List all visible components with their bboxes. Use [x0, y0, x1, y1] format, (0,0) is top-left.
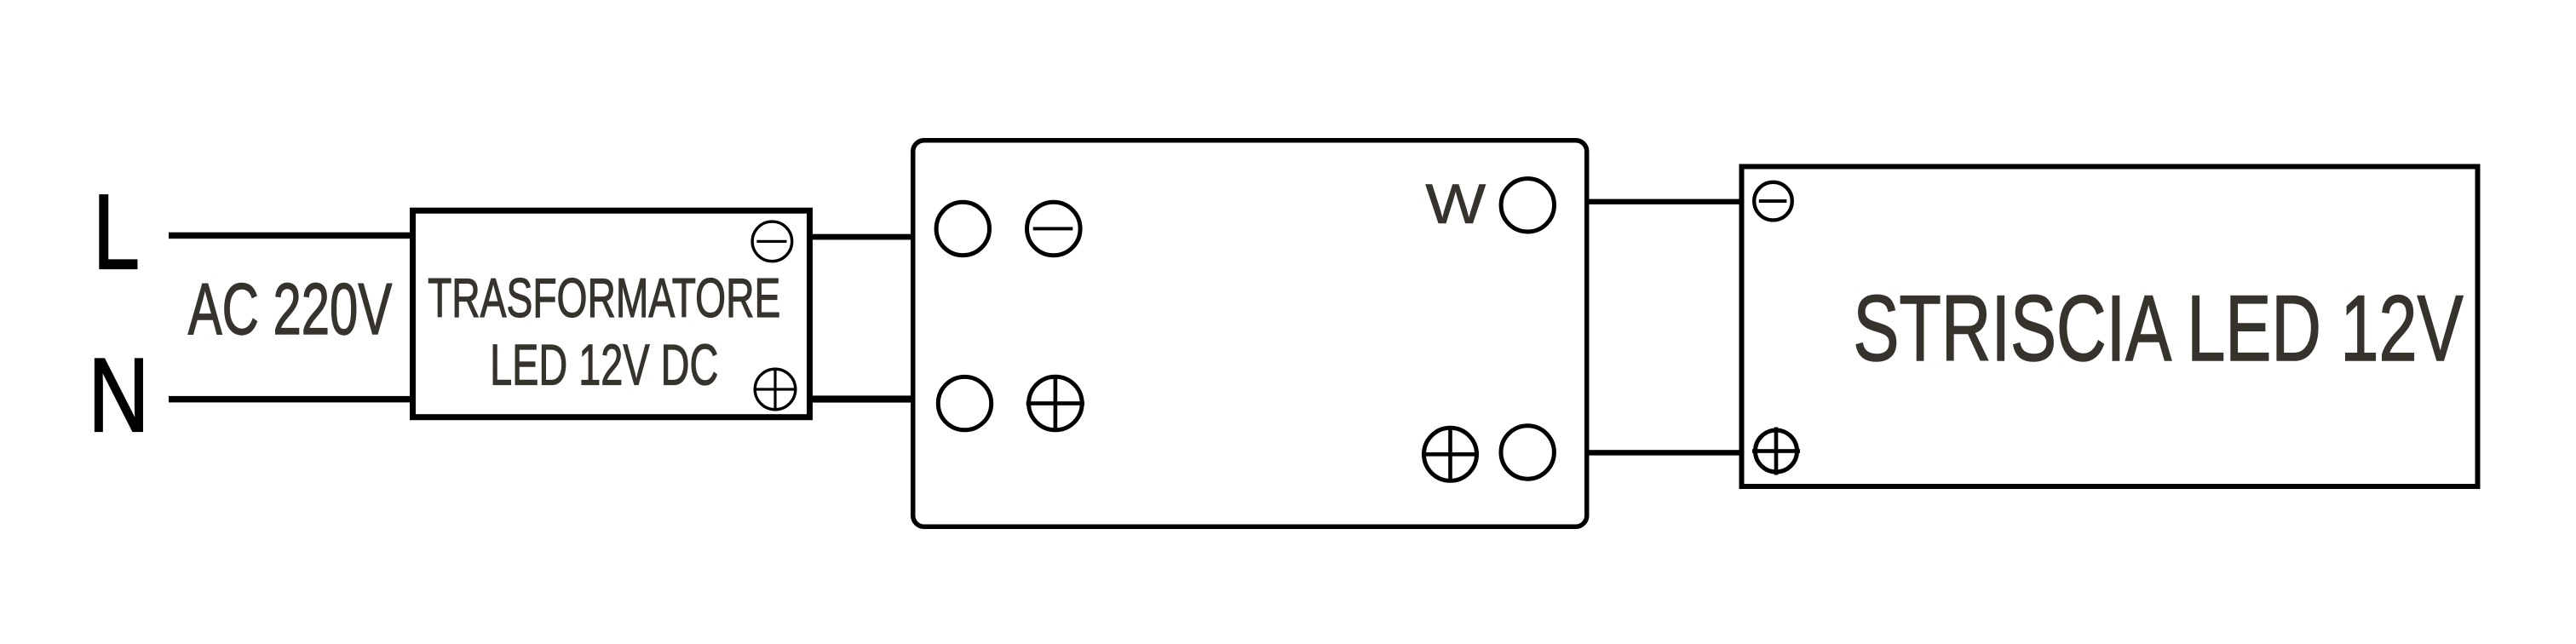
svg-text:W: W: [1425, 172, 1486, 235]
transformer terminal plus: [754, 368, 797, 411]
svg-text:TRASFORMATORE: TRASFORMATORE: [428, 267, 780, 329]
controller output terminal (plain, bottom right): [1501, 426, 1554, 479]
svg-text:LED 12V DC: LED 12V DC: [490, 333, 718, 398]
controller output terminal W: [1501, 179, 1554, 232]
LED strip terminal minus: [1754, 182, 1792, 221]
label AC 220V: [188, 267, 392, 349]
wire DC minus transformer to controller: [809, 234, 915, 240]
controller box: [913, 141, 1587, 527]
transformer label line 1: [428, 267, 780, 329]
controller input terminal (plain, plus row): [938, 377, 991, 429]
controller output terminal plus: [1422, 427, 1479, 481]
controller input terminal plus: [1026, 376, 1084, 430]
wire DC plus transformer to controller: [809, 395, 915, 402]
node L label: [93, 172, 140, 291]
transformer terminal minus: [752, 221, 792, 262]
transformer box: [413, 210, 810, 417]
svg-text:AC 220V: AC 220V: [188, 267, 392, 349]
node N label: [89, 336, 150, 453]
label STRISCIA LED 12V: [1853, 277, 2463, 381]
svg-text:N: N: [89, 336, 150, 453]
controller input terminal minus: [1027, 202, 1081, 256]
transformer label line 2: [490, 333, 718, 398]
wire controller to LED strip minus: [1587, 199, 1741, 204]
label W: [1425, 172, 1486, 235]
LED strip box: [1742, 167, 2478, 487]
wire controller to LED strip plus: [1587, 450, 1741, 455]
svg-text:L: L: [93, 172, 140, 291]
LED strip terminal plus: [1752, 428, 1800, 475]
wire L (phase) from L to transformer: [169, 233, 414, 239]
svg-text:STRISCIA LED 12V: STRISCIA LED 12V: [1853, 277, 2463, 381]
controller input terminal (plain, minus row): [936, 202, 989, 255]
wire N (neutral) from N to transformer: [169, 396, 414, 403]
